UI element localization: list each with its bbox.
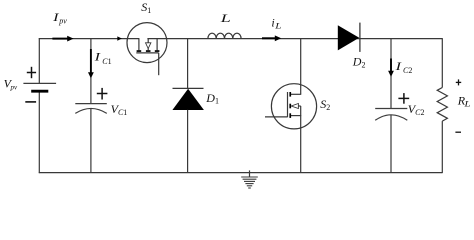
S1 gate bar xyxy=(136,52,158,54)
label RL xyxy=(457,93,471,109)
capacitor C2 plus sign xyxy=(398,93,409,104)
wire C2 branch lower xyxy=(390,115,392,173)
S2 gate lead xyxy=(265,116,288,118)
label D2 xyxy=(352,55,366,70)
diode D2 xyxy=(338,23,360,52)
S1 right lead xyxy=(156,39,158,51)
wire D1 branch upper xyxy=(187,39,189,89)
arrow IC2 current xyxy=(388,59,394,77)
inductor L xyxy=(208,33,241,38)
wire C1 branch upper xyxy=(90,39,92,104)
svg-text:VC1: VC1 xyxy=(111,102,128,117)
label IC2 xyxy=(394,60,412,75)
label iL xyxy=(271,15,281,31)
svg-text:pv: pv xyxy=(58,16,67,25)
S1 left contact tick xyxy=(137,50,142,52)
label IC1 xyxy=(93,50,111,66)
svg-text:S1: S1 xyxy=(141,0,151,15)
label S1 xyxy=(141,0,151,15)
svg-text:L: L xyxy=(220,12,231,25)
svg-text:D2: D2 xyxy=(352,55,366,70)
svg-text:I: I xyxy=(394,60,402,73)
svg-text:C1: C1 xyxy=(102,57,111,66)
wire left branch lower xyxy=(38,92,40,173)
S1 body arrow xyxy=(146,43,151,49)
label VC1 xyxy=(111,102,128,117)
switch S1 mosfet xyxy=(136,38,159,75)
capacitor C2 xyxy=(375,109,407,121)
S2 source stub xyxy=(290,115,301,117)
diode D1 xyxy=(172,88,204,110)
arrow iL current xyxy=(262,35,281,41)
label VC2 xyxy=(408,102,425,117)
battery source Vpv xyxy=(23,83,56,91)
arrowhead on wire into S1 xyxy=(117,36,122,40)
svg-text:D1: D1 xyxy=(205,91,219,105)
svg-text:S2: S2 xyxy=(320,97,330,112)
wire bottom bus xyxy=(39,172,443,174)
S1 right contact tick xyxy=(155,50,160,52)
svg-text:L: L xyxy=(274,22,281,31)
label Ipv xyxy=(52,11,67,26)
svg-text:I: I xyxy=(93,50,101,63)
S1 middle contact tick xyxy=(146,50,151,52)
wire S2 branch upper xyxy=(300,39,302,95)
battery plus sign xyxy=(27,67,36,78)
S1 body stub xyxy=(147,38,149,43)
arrow IC1 current xyxy=(88,49,94,78)
wire top bus left segment xyxy=(39,38,139,40)
label L xyxy=(220,12,231,25)
wire RL branch upper xyxy=(441,38,443,87)
svg-text:C2: C2 xyxy=(403,66,412,75)
S1 left lead xyxy=(138,38,140,50)
label D1 xyxy=(205,91,219,105)
S2 source contact tick xyxy=(289,113,291,118)
wire top bus right segment xyxy=(147,38,442,40)
ground xyxy=(241,170,258,188)
svg-text:VC2: VC2 xyxy=(408,102,425,117)
S2 body contact tick xyxy=(289,104,291,109)
resistor RL zigzag xyxy=(437,88,447,122)
wire RL branch lower xyxy=(441,121,443,173)
wire D1 branch lower xyxy=(187,110,189,173)
S2 drain contact tick xyxy=(289,92,291,97)
switch S2 circle xyxy=(271,84,316,129)
S2 gate bar xyxy=(287,92,289,117)
switch S1 circle xyxy=(127,23,167,63)
wire C1 branch lower xyxy=(90,109,92,173)
S2 body arrow xyxy=(291,104,298,109)
resistor RL plus sign xyxy=(456,79,461,85)
capacitor C1 xyxy=(75,104,107,114)
label S2 xyxy=(320,97,330,112)
S2 drain stub xyxy=(290,93,301,95)
svg-text:i: i xyxy=(271,15,274,29)
wire C2 branch upper xyxy=(390,39,392,109)
wire left branch upper xyxy=(38,38,40,83)
arrow Ipv current xyxy=(52,36,73,42)
wire S2 branch lower xyxy=(300,106,302,173)
battery minus sign xyxy=(25,101,36,103)
svg-text:L: L xyxy=(463,101,470,109)
resistor RL minus sign xyxy=(455,131,461,133)
switch S2 mosfet xyxy=(265,92,301,118)
svg-text:Vpv: Vpv xyxy=(4,76,18,91)
capacitor C1 plus sign xyxy=(97,88,108,100)
S1 gate lead xyxy=(158,53,160,75)
label Vpv xyxy=(4,76,18,91)
